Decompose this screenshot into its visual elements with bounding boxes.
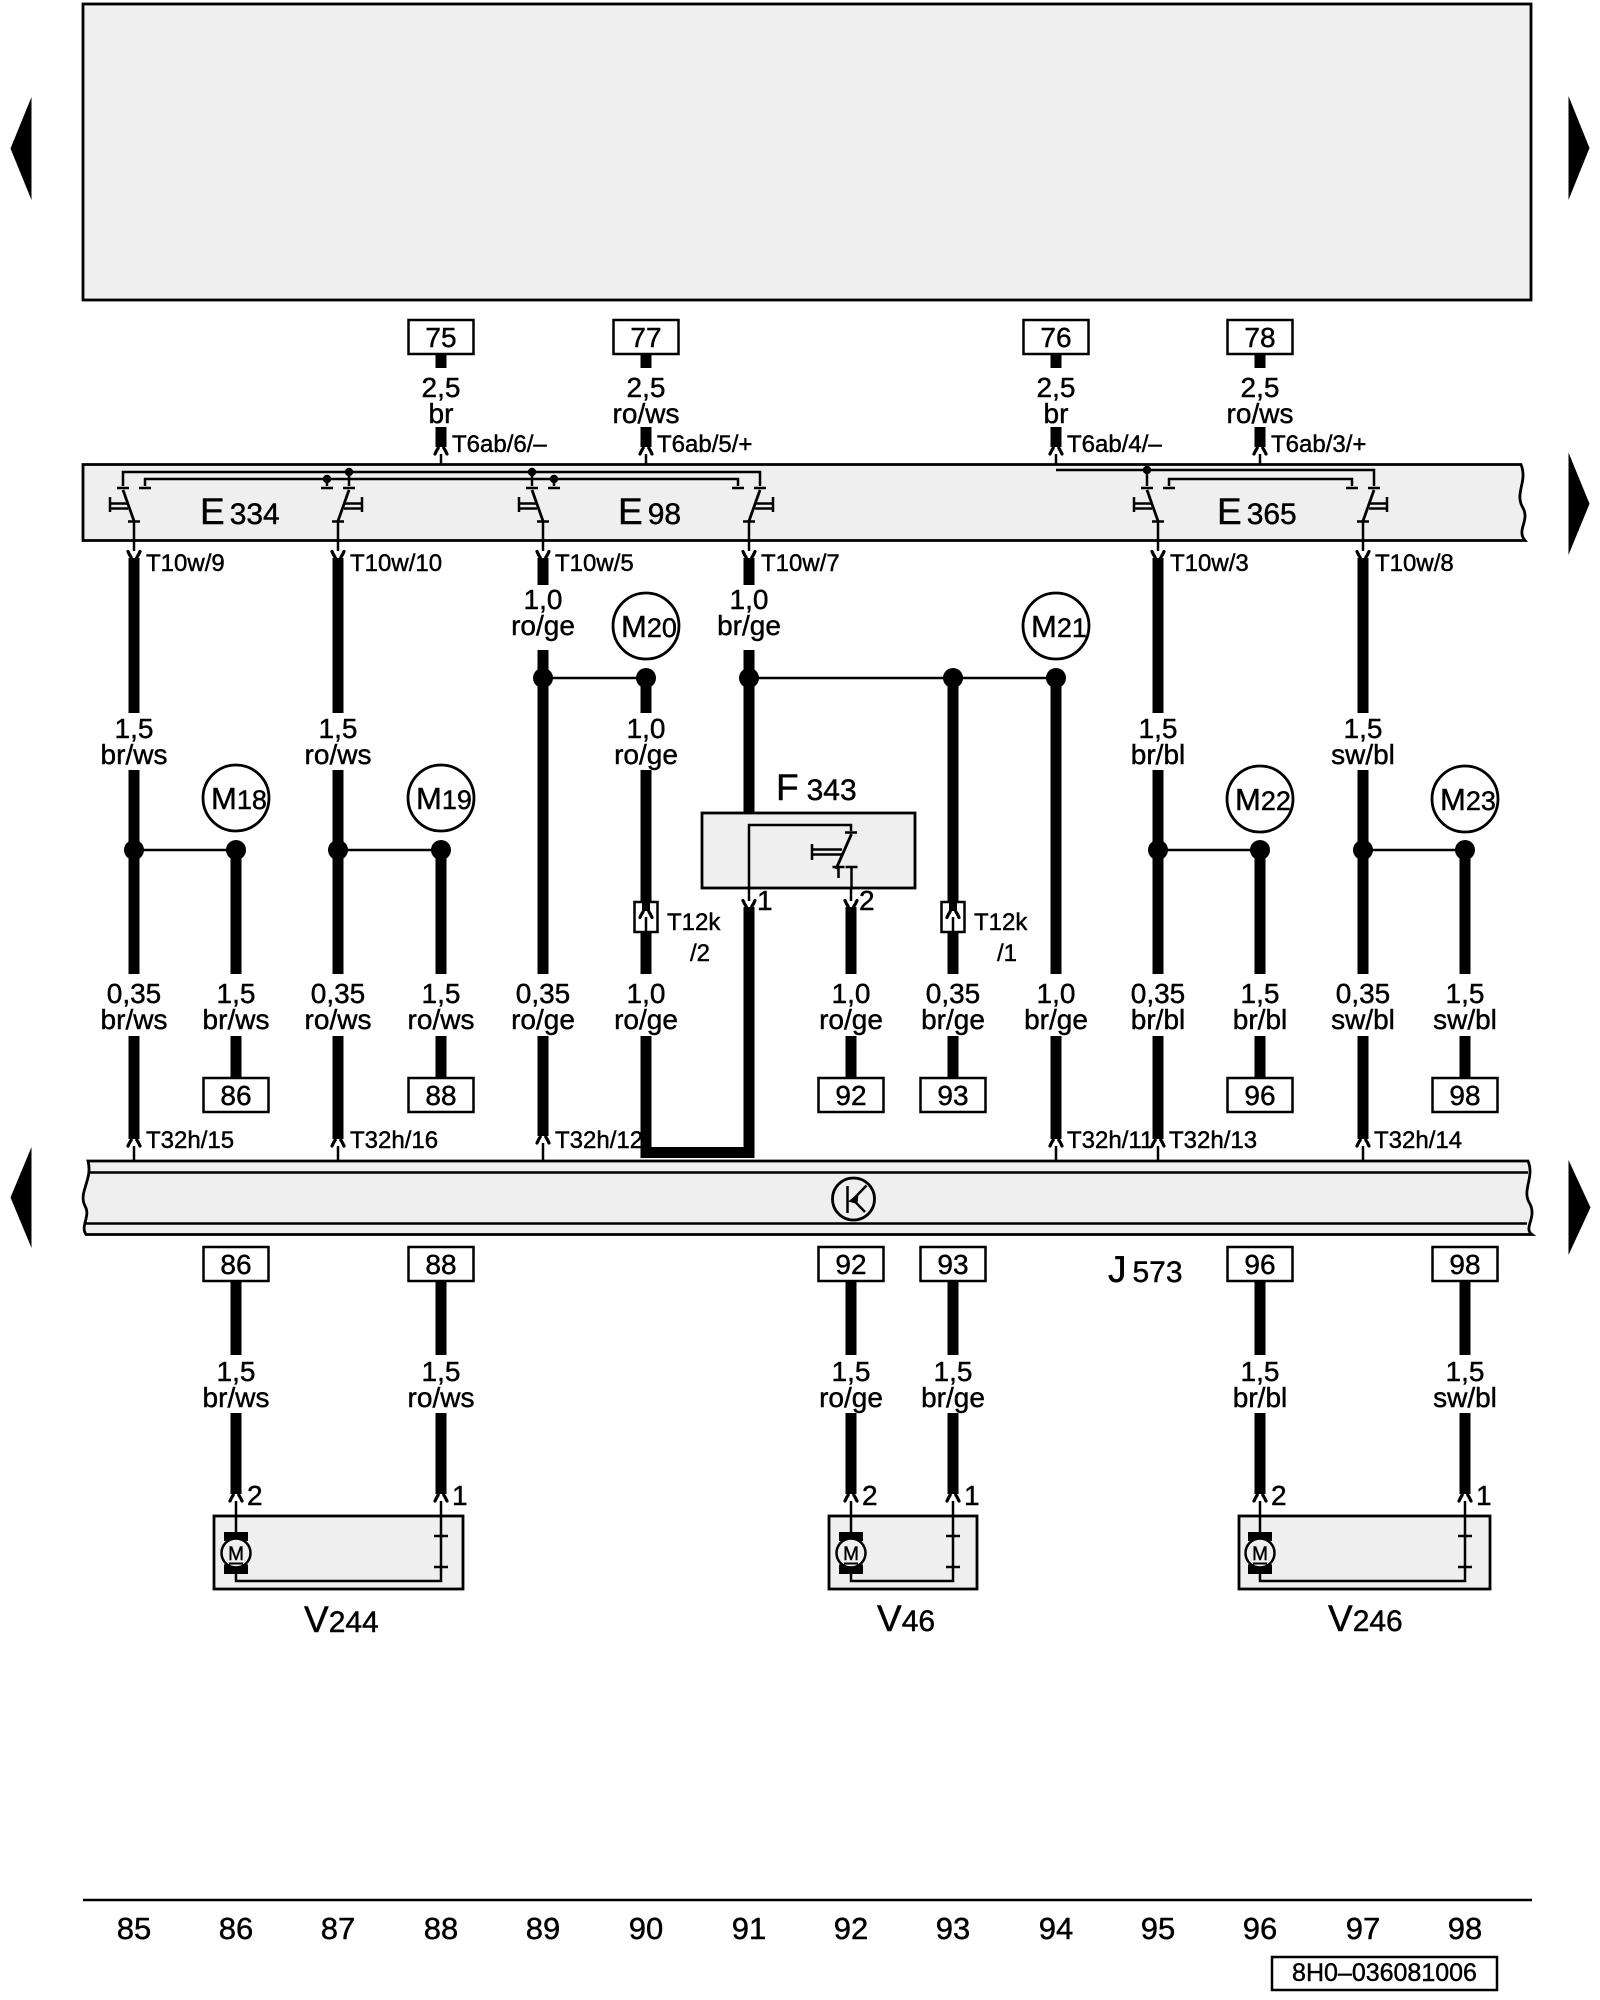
switch bank band E334/E98/E365	[83, 465, 1525, 541]
wire col 98 (sw/bl 1,5)	[1460, 850, 1471, 1078]
wire col 96 (br/bl 1,5)	[1255, 850, 1266, 1078]
wire col 92 (ro/ge 1,0)	[846, 907, 857, 1078]
track baseline	[83, 1899, 1532, 1902]
switch 2 actuator	[344, 497, 362, 512]
connector fork T32h/12	[537, 1137, 549, 1143]
switch 1 actuator	[110, 497, 128, 512]
svg-text:94: 94	[1039, 1911, 1073, 1946]
bus stub sw3 left	[531, 472, 534, 486]
svg-text:1: 1	[452, 1480, 468, 1511]
connector fork T6ab/3	[1254, 448, 1266, 454]
terminal 93 box (upper)	[921, 1078, 986, 1112]
J573 inner bottom line	[86, 1222, 1527, 1225]
terminal 88 box (upper)	[409, 1078, 474, 1112]
continuation area box (top)	[83, 4, 1531, 300]
wire col 87 (ro/ws)	[333, 558, 344, 1139]
svg-text:ro/ge: ro/ge	[614, 1004, 678, 1035]
motor designator M18	[203, 765, 269, 831]
svg-text:90: 90	[629, 1911, 663, 1946]
switch 6 (E365) blade	[1363, 490, 1374, 521]
node sw3 left on bus A	[528, 468, 536, 476]
svg-text:T32h/14: T32h/14	[1374, 1127, 1462, 1154]
wire col 90 (ro/ge 1,0)	[641, 678, 652, 974]
svg-text:M23: M23	[1440, 782, 1496, 817]
svg-text:1: 1	[1476, 1480, 1492, 1511]
E365 bus wire A' (minus, T6ab/4)	[1056, 470, 1374, 486]
bus stub sw3 right	[553, 479, 556, 486]
switch 3 actuator	[519, 497, 537, 512]
switch output T10w/9	[133, 540, 136, 551]
svg-text:85: 85	[117, 1911, 151, 1946]
node sw2 right on bus A	[345, 468, 353, 476]
wire stub below 77	[641, 354, 652, 368]
svg-text:95: 95	[1141, 1911, 1175, 1946]
terminal 86 box (upper)	[204, 1078, 269, 1112]
motor designator M19	[408, 765, 474, 831]
svg-text:sw/bl: sw/bl	[1433, 1004, 1497, 1035]
svg-text:/1: /1	[997, 940, 1017, 967]
F343 pin 2	[850, 888, 853, 901]
wire stub to T6ab/5	[641, 427, 652, 447]
wire V246/1 (sw/bl)	[1460, 1281, 1471, 1494]
junction M18 branch	[134, 849, 236, 852]
wire to E365 bus	[1259, 454, 1262, 479]
terminal 86 box (lower)	[204, 1247, 269, 1281]
switch 4 actuator	[755, 497, 773, 512]
svg-text:86: 86	[220, 1249, 251, 1280]
control unit band J573	[83, 1161, 1532, 1235]
svg-text:ro/ws: ro/ws	[408, 1382, 475, 1413]
svg-text:88: 88	[425, 1249, 456, 1280]
svg-text:J573: J573	[1108, 1249, 1183, 1290]
switch output T10w/10	[337, 540, 340, 551]
terminal 93 box (lower)	[921, 1247, 986, 1281]
wire stub to T6ab/4	[1051, 427, 1062, 447]
switch output T10w/3	[1157, 540, 1160, 551]
svg-text:2: 2	[862, 1480, 878, 1511]
svg-text:92: 92	[835, 1249, 866, 1280]
connector fork T32h/14	[1357, 1140, 1369, 1146]
wire V46/2 (ro/ge)	[846, 1281, 857, 1494]
page nav arrow right of E-band	[1569, 453, 1590, 556]
motor designator M23	[1432, 766, 1498, 832]
wire stub below 75	[436, 354, 447, 368]
switch E334 contact feet	[117, 487, 1380, 490]
wire col 95 (br/bl)	[1153, 558, 1164, 1139]
motor V244	[214, 1516, 463, 1589]
switch output T10w/5	[542, 540, 545, 551]
svg-text:M19: M19	[416, 781, 472, 816]
svg-text:br/ge: br/ge	[921, 1004, 985, 1035]
svg-text:2: 2	[859, 885, 875, 916]
terminal 76 box	[1024, 320, 1089, 354]
svg-text:sw/bl: sw/bl	[1433, 1382, 1497, 1413]
svg-text:br/ge: br/ge	[921, 1382, 985, 1413]
wire stub below 78	[1255, 354, 1266, 368]
connector fork V46 pin 2	[845, 1495, 857, 1501]
terminal 92 box (lower)	[819, 1247, 884, 1281]
svg-text:T32h/15: T32h/15	[146, 1127, 234, 1154]
svg-text:2: 2	[1271, 1480, 1287, 1511]
svg-text:br/ge: br/ge	[1024, 1004, 1088, 1035]
switch 2 (E334) blade	[338, 490, 349, 521]
wire V244/2 (br/ws)	[231, 1281, 242, 1494]
connector fork T6ab/6	[435, 448, 447, 454]
svg-text:77: 77	[630, 322, 661, 353]
svg-text:V244: V244	[304, 1599, 379, 1640]
wire to bus	[440, 454, 443, 472]
connector fork T6ab/4	[1050, 448, 1062, 454]
svg-text:75: 75	[425, 322, 456, 353]
junction node on bus B	[642, 475, 650, 483]
switch output T10w/7	[748, 540, 751, 551]
switch output T10w/8	[1362, 540, 1365, 551]
diagram id box	[1272, 1957, 1497, 1990]
svg-text:M20: M20	[621, 609, 677, 644]
bus wire B (plus, T6ab/5)	[145, 479, 738, 486]
node sw5 left	[1143, 466, 1151, 474]
wire col 93 (br/ge 0,35)	[948, 678, 959, 1078]
terminal 88 box (lower)	[409, 1247, 474, 1281]
switch 5 actuator	[1134, 497, 1152, 512]
wire to bus	[645, 454, 648, 479]
svg-text:96: 96	[1244, 1080, 1275, 1111]
wire col 88 (ro/ws 1,5)	[436, 850, 447, 1078]
svg-text:1: 1	[757, 885, 773, 916]
wire col 91 (br/ge)	[744, 558, 755, 813]
svg-text:8H0–036081006: 8H0–036081006	[1292, 1959, 1477, 1987]
junction node on bus A	[437, 468, 445, 476]
svg-text:T6ab/4/–: T6ab/4/–	[1067, 431, 1162, 458]
connector fork T32h/13	[1152, 1140, 1164, 1146]
svg-text:93: 93	[937, 1249, 968, 1280]
svg-text:ro/ws: ro/ws	[305, 1004, 372, 1035]
svg-text:98: 98	[1448, 1911, 1482, 1946]
svg-text:92: 92	[834, 1911, 868, 1946]
svg-text:T6ab/5/+: T6ab/5/+	[657, 431, 752, 458]
svg-text:76: 76	[1040, 322, 1071, 353]
svg-text:93: 93	[937, 1080, 968, 1111]
svg-text:br/bl: br/bl	[1131, 1004, 1185, 1035]
wire stub to T6ab/6	[436, 427, 447, 447]
svg-text:89: 89	[526, 1911, 560, 1946]
svg-text:br/bl: br/bl	[1131, 739, 1185, 770]
svg-text:ro/ge: ro/ge	[819, 1382, 883, 1413]
svg-text:E98: E98	[618, 491, 681, 532]
wire col 97 (sw/bl)	[1358, 558, 1369, 1139]
svg-text:T6ab/6/–: T6ab/6/–	[452, 431, 547, 458]
svg-text:98: 98	[1449, 1249, 1480, 1280]
node sw2 left on bus B	[323, 475, 331, 483]
connector T12k/1	[942, 902, 965, 932]
svg-text:ro/ws: ro/ws	[305, 739, 372, 770]
svg-text:M21: M21	[1031, 609, 1087, 644]
switch 3 (E98) blade	[532, 490, 543, 521]
svg-text:ro/ge: ro/ge	[511, 1004, 575, 1035]
svg-text:93: 93	[936, 1911, 970, 1946]
svg-text:78: 78	[1244, 322, 1275, 353]
junction M22 branch	[1158, 849, 1260, 852]
svg-text:2: 2	[247, 1480, 263, 1511]
connector fork T6ab/5	[640, 448, 652, 454]
E365 bus stub sw5 left	[1146, 470, 1149, 486]
connector fork T32h/11	[1050, 1140, 1062, 1146]
svg-text:br/bl: br/bl	[1233, 1004, 1287, 1035]
svg-text:M: M	[1252, 1544, 1268, 1565]
junction node on E365 bus	[1256, 475, 1264, 483]
svg-text:ro/ge: ro/ge	[614, 739, 678, 770]
connector fork T32h/16	[332, 1140, 344, 1146]
svg-text:F343: F343	[776, 767, 857, 808]
switch 6 actuator	[1369, 497, 1387, 512]
page nav arrow left of J573 band	[11, 1147, 32, 1248]
wire stub below 76	[1051, 354, 1062, 368]
wire U-link M20 to F343 pin1	[646, 907, 749, 1153]
svg-text:/2: /2	[690, 940, 710, 967]
svg-text:T12k: T12k	[974, 909, 1028, 936]
connector fork V244 pin 1	[435, 1495, 447, 1501]
svg-text:96: 96	[1244, 1249, 1275, 1280]
svg-text:98: 98	[1449, 1080, 1480, 1111]
motor designator M20	[613, 593, 679, 659]
svg-text:86: 86	[219, 1911, 253, 1946]
svg-text:E334: E334	[200, 491, 280, 532]
svg-text:V246: V246	[1328, 1598, 1403, 1639]
junction M23 branch	[1363, 849, 1465, 852]
svg-text:M18: M18	[211, 781, 267, 816]
comfort system symbol K	[833, 1178, 875, 1220]
svg-text:sw/bl: sw/bl	[1331, 739, 1395, 770]
svg-text:T10w/3: T10w/3	[1170, 550, 1249, 577]
svg-text:T32h/16: T32h/16	[350, 1127, 438, 1154]
svg-text:T32h/12: T32h/12	[555, 1127, 643, 1154]
wire to E365 bus	[1055, 454, 1058, 470]
junction M20 branch	[543, 677, 646, 680]
svg-text:96: 96	[1243, 1911, 1277, 1946]
svg-text:86: 86	[220, 1080, 251, 1111]
svg-text:T12k: T12k	[667, 909, 721, 936]
wire col 89 (ro/ge)	[538, 558, 549, 1136]
svg-text:T10w/9: T10w/9	[146, 550, 225, 577]
svg-text:M22: M22	[1235, 782, 1291, 817]
svg-text:br: br	[1044, 398, 1069, 429]
terminal 96 box (upper)	[1228, 1078, 1293, 1112]
terminal 98 box (lower)	[1433, 1247, 1498, 1281]
connector fork V244 pin 2	[230, 1495, 242, 1501]
svg-text:br/ws: br/ws	[101, 739, 168, 770]
F343 pin 1	[748, 888, 751, 901]
connector fork T32h/15	[128, 1140, 140, 1146]
wire V46/1 (br/ge)	[948, 1281, 959, 1494]
svg-text:97: 97	[1346, 1911, 1380, 1946]
svg-text:1: 1	[964, 1480, 980, 1511]
motor designator M22	[1227, 766, 1293, 832]
terminal 98 box (upper)	[1433, 1078, 1498, 1112]
svg-text:88: 88	[425, 1080, 456, 1111]
svg-text:br/ws: br/ws	[203, 1382, 270, 1413]
svg-text:T32h/13: T32h/13	[1169, 1127, 1257, 1154]
junction M19 branch	[338, 849, 441, 852]
motor V246	[1239, 1516, 1490, 1589]
svg-text:ro/ws: ro/ws	[1227, 398, 1294, 429]
svg-text:T10w/8: T10w/8	[1375, 550, 1454, 577]
terminal 75 box	[409, 320, 474, 354]
page nav arrow top-left	[11, 97, 32, 200]
wire V246/2 (br/bl)	[1255, 1281, 1266, 1494]
svg-text:br/ws: br/ws	[101, 1004, 168, 1035]
svg-text:88: 88	[424, 1911, 458, 1946]
svg-text:M: M	[843, 1544, 859, 1565]
svg-text:T32h/11: T32h/11	[1067, 1127, 1153, 1154]
wire col 85 (br/ws)	[129, 558, 140, 1139]
bus stub sw2 left	[326, 479, 329, 486]
svg-text:V46: V46	[877, 1598, 935, 1639]
svg-text:sw/bl: sw/bl	[1331, 1004, 1395, 1035]
terminal 77 box	[614, 320, 679, 354]
svg-text:ro/ge: ro/ge	[511, 610, 575, 641]
connector T12k/2	[635, 902, 658, 932]
svg-text:91: 91	[732, 1911, 766, 1946]
motor V46	[829, 1516, 977, 1589]
E365 bus wire B' (plus, T6ab/3)	[1169, 479, 1352, 486]
terminal 78 box	[1228, 320, 1293, 354]
switch 5 (E365) blade	[1147, 490, 1158, 521]
connector fork V246 pin 2	[1254, 1495, 1266, 1501]
motor designator M21	[1023, 593, 1089, 659]
svg-text:E365: E365	[1217, 491, 1297, 532]
page nav arrow top-right	[1569, 96, 1590, 200]
terminal 92 box (upper)	[819, 1078, 884, 1112]
node sw3 right on bus B	[550, 475, 558, 483]
connector fork V46 pin 1	[947, 1495, 959, 1501]
svg-text:br/bl: br/bl	[1233, 1382, 1287, 1413]
svg-text:T10w/5: T10w/5	[555, 550, 634, 577]
svg-text:T10w/10: T10w/10	[350, 550, 442, 577]
switch 1 (E334) blade	[123, 490, 134, 521]
page nav arrow right of J573 band	[1569, 1160, 1591, 1255]
wire col 94 (br/ge 1,0)	[1051, 678, 1062, 1139]
svg-text:br/ws: br/ws	[203, 1004, 270, 1035]
svg-text:br: br	[429, 398, 454, 429]
wire stub to T6ab/3	[1255, 427, 1266, 447]
bus stub sw2 right	[348, 472, 351, 486]
connector fork V246 pin 1	[1459, 1495, 1471, 1501]
terminal 96 box (lower)	[1228, 1247, 1293, 1281]
svg-text:M: M	[228, 1544, 244, 1565]
switch 4 (E98) blade	[749, 490, 760, 521]
svg-text:ro/ws: ro/ws	[613, 398, 680, 429]
svg-text:ro/ge: ro/ge	[819, 1004, 883, 1035]
wire col 86 (br/ws 1,5)	[231, 850, 242, 1078]
bus wire A (minus, T6ab/6)	[123, 472, 760, 486]
svg-text:br/ge: br/ge	[717, 610, 781, 641]
wire V244/1 (ro/ws)	[436, 1281, 447, 1494]
svg-text:92: 92	[835, 1080, 866, 1111]
svg-text:ro/ws: ro/ws	[408, 1004, 475, 1035]
svg-text:T10w/7: T10w/7	[761, 550, 840, 577]
junction M21 branch	[749, 677, 1056, 680]
J573 inner top line	[89, 1171, 1528, 1174]
svg-text:T6ab/3/+: T6ab/3/+	[1271, 431, 1366, 458]
svg-text:87: 87	[321, 1911, 355, 1946]
